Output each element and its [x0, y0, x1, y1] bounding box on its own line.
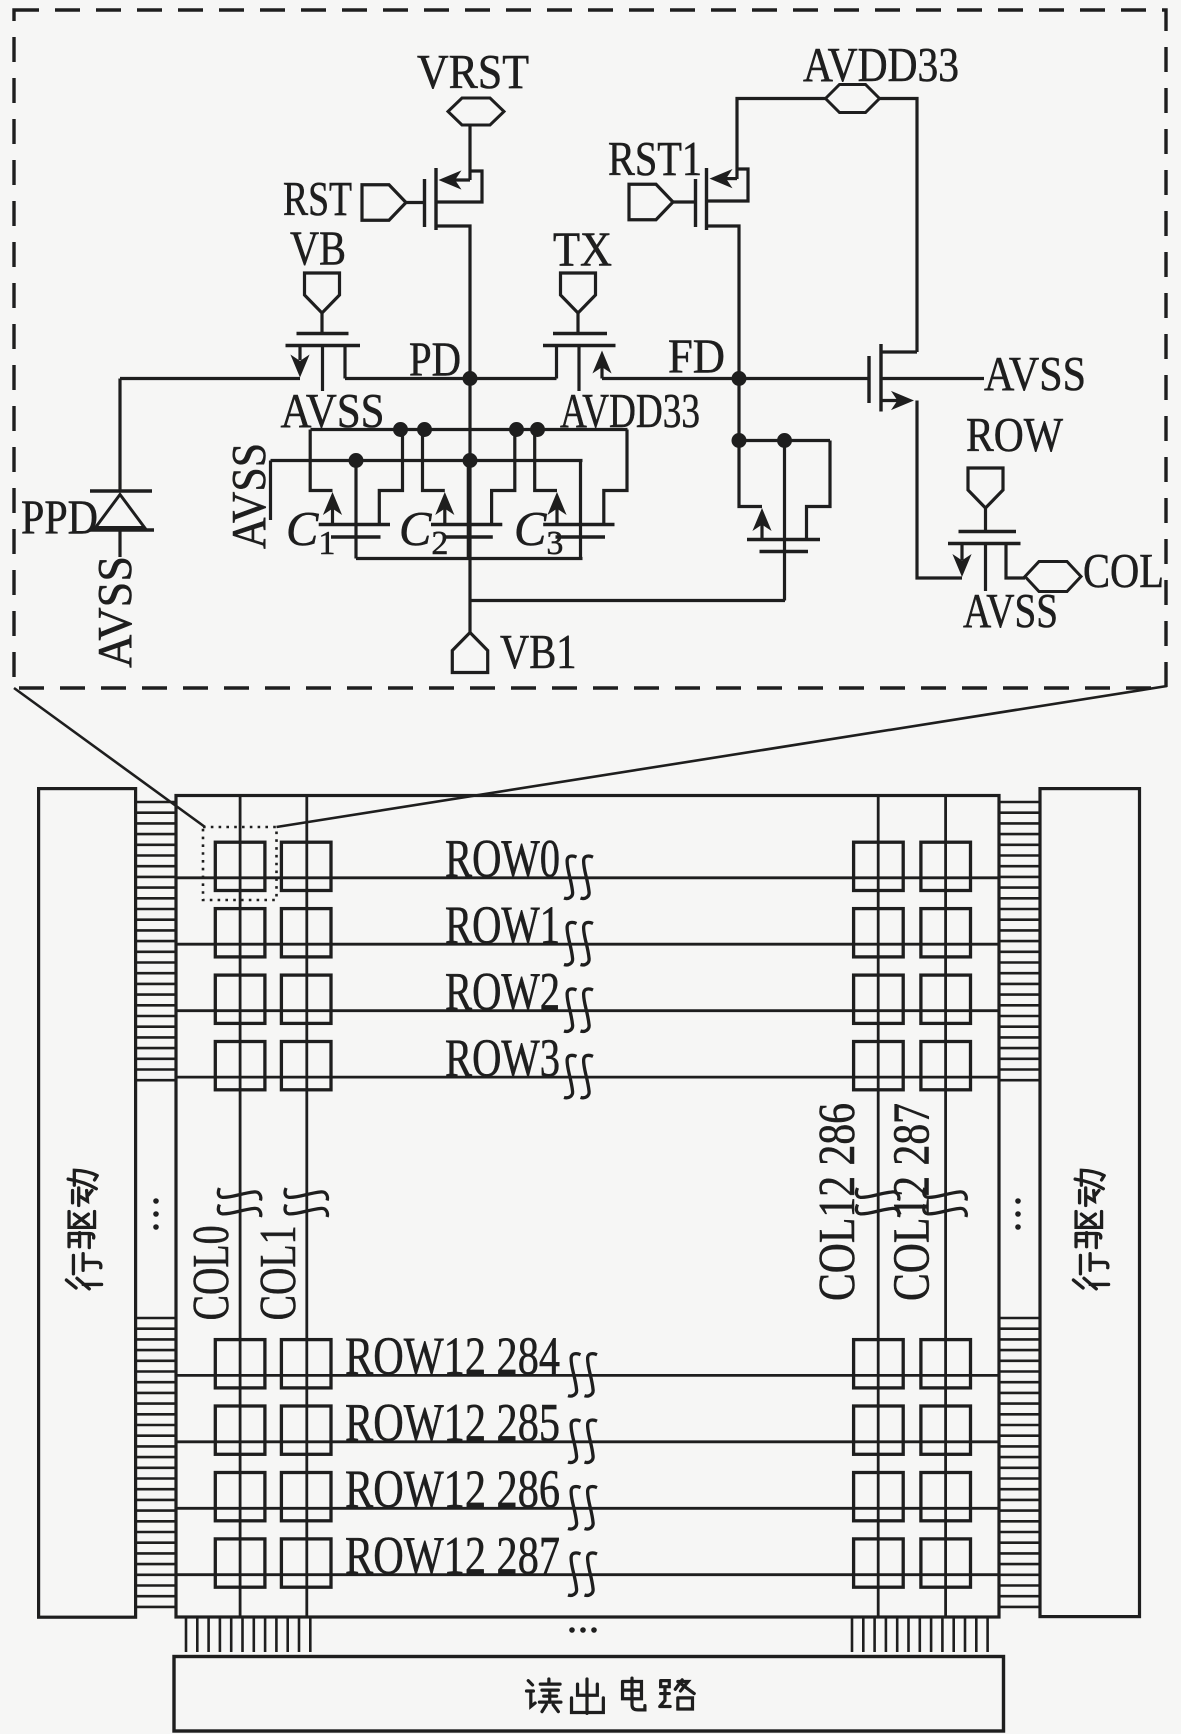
break mark on ROW0	[564, 856, 593, 898]
row label ROW12 286	[345, 1459, 560, 1519]
break mark on ROW12 284	[568, 1354, 597, 1396]
wire RST pin to gate	[404, 201, 423, 204]
row label ROW2	[445, 962, 560, 1022]
svg-text:ROW12 287: ROW12 287	[345, 1526, 560, 1586]
capacitor CFD left arrow lead	[752, 508, 771, 540]
svg-text:COL12 287: COL12 287	[884, 1103, 941, 1301]
transistor ROW gate bar	[959, 530, 1017, 533]
left row-driver box	[39, 789, 136, 1618]
svg-text:ROW3: ROW3	[445, 1028, 560, 1088]
break mark on ROW3	[564, 1055, 593, 1097]
row line 6	[176, 1507, 999, 1510]
break mark on ROW12 287	[568, 1553, 597, 1595]
dotted zoom-source pixel box	[203, 827, 277, 900]
transistor RST gate bar	[423, 179, 426, 227]
transistor VB gate bar	[297, 332, 349, 335]
photodiode PPD anode stub	[118, 530, 121, 557]
wire RST1 pin to gate	[671, 200, 694, 203]
readout circuit box	[174, 1657, 1004, 1732]
column line 1	[305, 796, 308, 1618]
wire PD to VB1	[468, 377, 471, 633]
column line 0	[239, 796, 242, 1618]
transistor VB bulk lead	[321, 346, 324, 392]
svg-text:ROW2: ROW2	[445, 962, 560, 1022]
wire AVSS/AVDD rail (rail1)	[311, 428, 628, 431]
input pin ROW pentagon	[968, 468, 1003, 508]
svg-text:COL0: COL0	[183, 1225, 240, 1320]
value label C2	[399, 503, 448, 562]
right driver bus hatch upper	[999, 802, 1040, 1080]
wire PD row to PPD	[118, 379, 121, 492]
bottom readout bus left comb	[186, 1619, 310, 1653]
svg-text:ROW12 284: ROW12 284	[345, 1326, 560, 1386]
wire FD to cap row	[737, 379, 740, 441]
bias pin VB1 pentagon	[452, 633, 487, 673]
wire ROW pin to gate	[984, 508, 987, 531]
transistor RST drain bracket	[436, 171, 482, 202]
pixel cell squares	[215, 842, 970, 1587]
svg-text:COL12 286: COL12 286	[809, 1103, 866, 1301]
capacitor C3 channel bar	[543, 523, 614, 526]
net label AVDD33	[803, 39, 959, 92]
svg-text:COL: COL	[1083, 545, 1164, 598]
svg-text:TX: TX	[553, 224, 612, 277]
capacitor C1 left step	[310, 430, 332, 491]
net label TX	[553, 224, 612, 277]
capacitor CFD channel bar	[747, 538, 820, 541]
net label RST	[283, 173, 352, 226]
photodiode PPD anode bar	[89, 528, 154, 532]
row line 7	[176, 1573, 999, 1576]
row line 5	[176, 1440, 999, 1443]
vertical ellipsis left	[153, 1198, 159, 1230]
transistor VB drain lead	[343, 346, 346, 379]
svg-text:RST1: RST1	[608, 133, 702, 186]
transistor TX source lead	[555, 346, 558, 379]
right row-driver box	[1040, 789, 1140, 1617]
transistor RST1 source lead	[707, 226, 740, 377]
capacitor C3 left arrow lead	[547, 492, 566, 525]
svg-text:ROW12 286: ROW12 286	[345, 1459, 560, 1519]
node FD	[732, 371, 747, 386]
svg-text:PPD: PPD	[21, 492, 98, 545]
readout box label 读出电路	[527, 1678, 695, 1713]
svg-text:VB1: VB1	[500, 626, 577, 679]
net label PPD	[21, 492, 98, 545]
break mark on ROW2	[564, 989, 593, 1031]
capacitor C2 gate bar	[443, 535, 493, 538]
transistor RST channel bar	[434, 168, 437, 230]
net label VB1	[500, 626, 577, 679]
left driver label 行驱动 (rotated)	[66, 1170, 101, 1289]
capacitor C3 left step	[535, 430, 557, 491]
dashed pixel-circuit border box	[14, 10, 1166, 688]
net label AVSS under VB	[281, 385, 385, 438]
transistor VB channel bar	[286, 344, 361, 347]
net label AVSS under PPD (rotated)	[89, 556, 142, 668]
column label COL0 (rotated)	[183, 1225, 240, 1320]
right driver label 行驱动 (rotated)	[1073, 1170, 1108, 1289]
transistor RST drain arrow	[439, 170, 471, 189]
transistor ROW drain lead	[1006, 544, 1025, 579]
capacitor C2 right lead	[492, 430, 515, 525]
node on FD cap rail	[732, 433, 793, 448]
break mark on ROW1	[564, 922, 593, 964]
transistor ROW channel bar	[948, 542, 1021, 545]
supply pin AVDD33 hexagon	[826, 85, 880, 113]
capacitor C3 gate bar	[556, 535, 606, 538]
transistor RST source lead	[436, 226, 470, 377]
transistor SF channel bar	[879, 344, 882, 412]
net label AVSS left of rail2 (rotated)	[223, 443, 276, 549]
svg-text:AVSS: AVSS	[223, 443, 276, 549]
svg-text:ROW12 285: ROW12 285	[345, 1393, 560, 1453]
wire VRST to RST drain	[468, 125, 471, 180]
row line 0	[176, 876, 999, 879]
pixel array box	[176, 796, 999, 1618]
net label COL	[1083, 545, 1164, 598]
input pin VB pentagon	[305, 273, 340, 313]
svg-text:AVDD33: AVDD33	[803, 39, 959, 92]
wire VB pin to gate	[320, 313, 323, 333]
capacitor C2 channel bar	[431, 523, 502, 526]
wire FD cap top rail	[739, 439, 830, 442]
wire rail2	[271, 459, 583, 462]
transistor RST1 drain bracket	[707, 169, 749, 201]
svg-text:RST: RST	[283, 173, 352, 226]
junction dots on rail2	[349, 453, 478, 468]
transistor TX drain arrow	[592, 351, 611, 379]
junction dots on rail1	[393, 422, 545, 437]
row line 1	[176, 943, 999, 946]
capacitor CFD right step	[807, 441, 831, 540]
capacitor C3 middle line	[579, 461, 582, 559]
svg-text:PD: PD	[409, 334, 461, 387]
transistor SF gate bar	[867, 356, 870, 403]
svg-text:VRST: VRST	[417, 46, 529, 99]
row label ROW1	[445, 895, 560, 955]
row label ROW12 287	[345, 1526, 560, 1586]
capacitor C2 left arrow lead	[435, 492, 454, 525]
row label ROW12 285	[345, 1393, 560, 1453]
node PD	[463, 371, 478, 386]
net label AVSS right of SF	[984, 348, 1086, 401]
horizontal ellipsis bottom	[569, 1627, 597, 1633]
column label COL12 287 (rotated)	[884, 1103, 941, 1301]
capacitor C1 gate bar	[331, 535, 381, 538]
input pin RST1 pentagon	[629, 184, 673, 220]
wire VB drain to TX source	[345, 377, 557, 380]
capacitor C1 right lead	[379, 430, 402, 525]
capacitor C1 middle line	[354, 461, 357, 559]
transistor TX channel bar	[543, 344, 616, 347]
photodiode PPD cathode bar	[90, 489, 152, 493]
transistor VB source arrow	[290, 346, 309, 378]
row line 2	[176, 1009, 999, 1012]
wire TX pin to gate	[576, 313, 579, 333]
break mark on column line 2	[856, 1188, 898, 1217]
value label C1	[286, 503, 335, 562]
transistor SF drain lead	[881, 350, 917, 353]
capacitor CFD left step	[739, 441, 762, 507]
bottom readout bus right comb	[852, 1619, 988, 1653]
row label ROW0	[445, 829, 560, 889]
wire PPD branch to VB source	[120, 377, 300, 380]
svg-text:ROW1: ROW1	[445, 895, 560, 955]
transistor SF source arrow	[881, 391, 914, 410]
input pin RST pentagon	[362, 185, 406, 221]
row line 3	[176, 1076, 999, 1079]
transistor RST1 drain arrow	[710, 169, 738, 188]
svg-text:VB: VB	[290, 223, 346, 276]
svg-text:COL1: COL1	[250, 1225, 307, 1320]
break mark on column line 1	[285, 1188, 327, 1217]
transistor RST1 channel bar	[705, 168, 708, 230]
wire SF source down	[917, 401, 962, 579]
wire rail2 left AVSS stub	[269, 461, 272, 521]
wire capacitor bottom rail	[356, 557, 583, 560]
transistor RST1 gate bar	[694, 179, 697, 227]
net label VB	[290, 223, 346, 276]
capacitor C2 left step	[423, 430, 445, 491]
input pin TX pentagon	[561, 273, 596, 313]
net label AVDD33 under TX	[560, 385, 700, 438]
right driver bus hatch lower	[999, 1318, 1040, 1607]
zoom indicator right diagonal	[277, 686, 1168, 827]
net label RST1	[608, 133, 702, 186]
capacitor CFD middle line	[783, 441, 786, 601]
wire VB1 branch to FD cap	[470, 599, 785, 602]
column line 3	[944, 796, 947, 1618]
net label VRST	[417, 46, 529, 99]
break mark on ROW12 286	[568, 1487, 597, 1529]
value label C3	[514, 503, 563, 562]
photodiode PPD triangle	[96, 495, 145, 528]
svg-text:ROW: ROW	[966, 409, 1063, 462]
break mark on column line 3	[924, 1188, 966, 1217]
column label COL12 286 (rotated)	[809, 1103, 866, 1301]
capacitor C2 middle line	[467, 461, 470, 559]
left driver bus hatch upper	[137, 802, 177, 1080]
svg-text:AVSS: AVSS	[89, 556, 142, 668]
row label ROW3	[445, 1028, 560, 1088]
net label AVSS under ROW transistor	[963, 585, 1058, 638]
svg-text:AVSS: AVSS	[984, 348, 1086, 401]
transistor SF bulk lead	[881, 377, 984, 380]
row label ROW12 284	[345, 1326, 560, 1386]
wire AVDD33 to RST1 drain	[737, 99, 826, 180]
net label FD	[668, 331, 725, 384]
output pin COL hexagon	[1025, 562, 1081, 592]
capacitor CFD gate bar	[760, 550, 809, 553]
supply pin VRST hexagon	[448, 98, 504, 125]
capacitor C3 right lead	[604, 430, 627, 525]
break mark on column line 0	[218, 1188, 260, 1217]
transistor ROW source arrow	[952, 544, 971, 578]
column line 2	[877, 796, 880, 1618]
left driver bus hatch lower	[137, 1318, 177, 1607]
capacitor C1 left arrow lead	[323, 492, 342, 525]
svg-text:ROW0: ROW0	[445, 829, 560, 889]
wire AVDD33 to follower drain	[880, 99, 918, 353]
net label PD	[409, 334, 461, 387]
vertical ellipsis right	[1015, 1198, 1021, 1230]
transistor TX bulk lead	[577, 346, 580, 392]
net label ROW	[966, 409, 1063, 462]
transistor ROW bulk lead	[984, 544, 987, 592]
break mark on ROW12 285	[568, 1420, 597, 1462]
wire TX drain to follower gate	[602, 377, 869, 380]
zoom indicator left diagonal	[14, 688, 205, 827]
transistor TX gate bar	[553, 332, 607, 335]
column label COL1 (rotated)	[250, 1225, 307, 1320]
svg-text:FD: FD	[668, 331, 725, 384]
capacitor C1 channel bar	[319, 523, 390, 526]
row line 4	[176, 1374, 999, 1377]
